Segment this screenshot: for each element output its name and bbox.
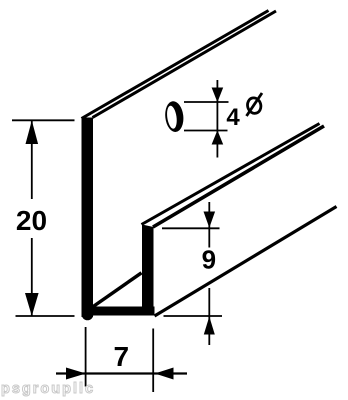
dim 4 up arrow (212, 130, 224, 144)
dim 9 bottom extension line (164, 315, 223, 317)
watermark (1, 381, 95, 397)
dim 7 line (56, 372, 187, 374)
diameter symbol (246, 96, 263, 114)
dim 9 down arrow (204, 212, 216, 228)
dim 4 down arrow (212, 88, 224, 103)
dim 9 top extension line (162, 227, 220, 229)
svg-text:9: 9 (202, 245, 216, 275)
dim 9 upper shaft (208, 202, 210, 248)
dim 7 right-pointing arrow (66, 368, 86, 380)
channel inner bottom edge (93, 273, 142, 307)
dim 20 upper shaft (31, 121, 33, 199)
hole inner opening (166, 105, 178, 129)
dim 4 shaft (216, 80, 218, 158)
dim 9 lower shaft (208, 288, 210, 345)
svg-text:20: 20 (16, 205, 47, 236)
svg-text:4: 4 (226, 104, 240, 131)
wall top outer edge (82, 11, 269, 119)
profile floor front face (82, 307, 155, 316)
floor bottom rear edge (155, 207, 337, 317)
profile wall front face (82, 118, 94, 318)
wall top inner edge (93, 11, 277, 118)
dim 20 top extension line (12, 119, 75, 121)
dim 20 up arrow (26, 121, 39, 145)
dim 20 lower shaft (31, 238, 33, 316)
svg-text:7: 7 (114, 341, 130, 372)
dim 20 down arrow (25, 293, 39, 316)
dim 7 left extension line (85, 327, 87, 387)
profile bottom-left rounded corner (82, 309, 94, 321)
dim 4 bottom extension line (184, 130, 228, 132)
dim 7 right extension line (152, 329, 154, 393)
dim 7 left-pointing arrow (155, 368, 174, 380)
dim 4 top extension line (184, 101, 229, 103)
dim 9 up arrow (204, 317, 215, 335)
lip top inner edge (153, 126, 324, 227)
profile lip front face (142, 225, 154, 316)
hole outer ring (164, 100, 185, 133)
lip top outer edge (142, 124, 320, 225)
dim 20 bottom extension line (16, 315, 75, 317)
